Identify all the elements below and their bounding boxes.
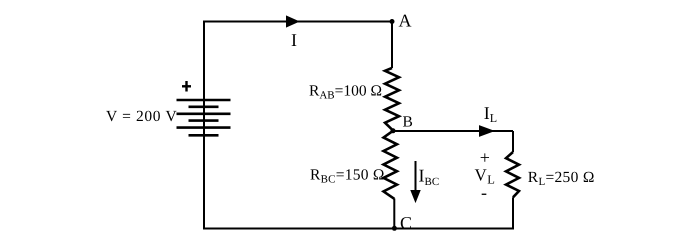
battery V plate short 2 xyxy=(189,119,219,122)
wire bottom rail xyxy=(203,228,514,230)
svg-text:B: B xyxy=(403,113,413,130)
svg-text:A: A xyxy=(399,11,412,31)
arrowhead current I on top wire xyxy=(287,16,299,27)
battery V plate short 3 xyxy=(189,134,219,137)
svg-text:-: - xyxy=(481,183,487,203)
wire node B to load branch xyxy=(393,130,513,132)
svg-text:I: I xyxy=(291,30,297,50)
battery V plate long 2 xyxy=(177,113,231,116)
wire resistor RL to bottom rail xyxy=(512,197,514,228)
svg-text:RL=250 Ω: RL=250 Ω xyxy=(528,169,595,188)
node B xyxy=(391,128,396,133)
battery plus sign xyxy=(185,81,187,92)
resistor RBC xyxy=(384,131,398,199)
battery V plate long 3 xyxy=(177,126,231,129)
svg-text:+: + xyxy=(480,148,490,168)
svg-text:V = 200 V: V = 200 V xyxy=(106,108,177,125)
node C xyxy=(392,226,397,231)
svg-text:IBC: IBC xyxy=(419,166,440,189)
battery V plate short 1 xyxy=(189,106,219,109)
wire resistor RBC to node C xyxy=(393,199,395,229)
wire load branch down to resistor RL xyxy=(512,131,514,152)
svg-text:RAB=100 Ω: RAB=100 Ω xyxy=(309,83,382,102)
wire battery negative to bottom rail xyxy=(203,135,205,229)
svg-text:C: C xyxy=(400,213,412,233)
resistor RAB xyxy=(385,68,399,131)
wire top from battery to node A xyxy=(204,22,392,135)
arrow current IBC xyxy=(415,161,417,192)
node A xyxy=(390,19,395,24)
svg-text:RBC=150 Ω: RBC=150 Ω xyxy=(310,167,385,186)
svg-text:IL: IL xyxy=(484,103,497,125)
arrowhead current IL xyxy=(480,126,494,136)
resistor RL xyxy=(506,152,519,197)
battery V plate long 1 xyxy=(177,99,231,102)
wire node A to resistor RAB xyxy=(391,22,393,69)
